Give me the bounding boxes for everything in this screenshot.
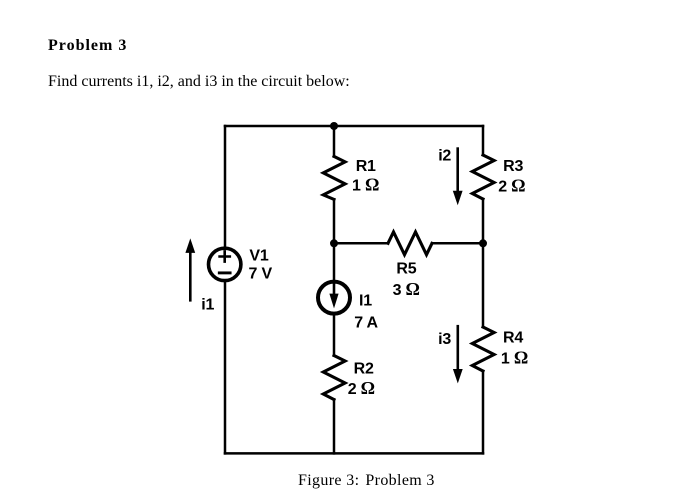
voltage source V1 circle [209,248,241,280]
svg-text:R5: R5 [396,261,416,278]
wire R5 branch left [334,242,388,245]
wire right branch middle [482,199,485,327]
wire R5 branch right [432,242,483,245]
resistor R5 [388,232,432,255]
wire middle branch mid [333,199,336,355]
wire right branch lower [482,371,485,453]
svg-text:i1: i1 [201,296,214,313]
svg-text:2 Ω: 2 Ω [348,378,375,398]
svg-text:R2: R2 [354,361,374,378]
svg-text:I1: I1 [359,293,372,310]
svg-text:V1: V1 [249,248,268,265]
current source I1 circle [318,282,350,314]
V1 plus sign [220,251,230,261]
node dot right [479,239,487,247]
resistor R1 [323,156,345,199]
node dot top [330,122,338,130]
svg-text:1 Ω: 1 Ω [501,348,528,368]
wire right branch upper [482,126,485,155]
I1 arrow head [329,294,338,309]
wire middle branch upper [333,126,336,156]
svg-text:1 Ω: 1 Ω [352,175,379,195]
svg-text:i2: i2 [438,148,451,165]
current arrow i3 [453,326,463,383]
svg-text:i3: i3 [438,331,451,348]
svg-text:7 A: 7 A [354,314,378,331]
heading "Problem 3" [48,37,127,55]
node dot middle [330,239,338,247]
resistor R2 [323,356,345,400]
wire middle branch lower [333,400,336,454]
svg-text:2 Ω: 2 Ω [498,176,525,196]
svg-text:R1: R1 [356,158,376,175]
current arrow i1 [185,238,195,300]
body text [48,73,350,91]
resistor R3 [472,155,494,199]
svg-text:3 Ω: 3 Ω [393,279,420,299]
I1 arrow shaft [333,285,336,296]
wire top (node A to corners) [225,125,483,128]
figure caption [298,472,435,490]
current arrow i2 [453,149,463,206]
V1 minus sign [219,271,230,274]
wire bottom [225,452,483,455]
svg-text:7 V: 7 V [249,266,273,283]
resistor R4 [472,327,494,371]
wire left branch [224,126,227,453]
svg-text:R3: R3 [503,158,523,175]
svg-text:R4: R4 [503,330,523,347]
